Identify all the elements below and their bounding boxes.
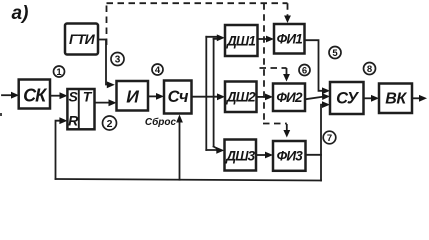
svg-text:7: 7: [327, 133, 332, 144]
svg-text:И: И: [126, 87, 139, 107]
wire FI3 output to riser: [306, 154, 322, 156]
wire input arrow to CK: [2, 92, 19, 99]
node 8 circle: [364, 63, 376, 75]
svg-text:ДШ3: ДШ3: [225, 149, 255, 164]
block VK: [379, 84, 412, 114]
wire dashed branch to FI3: [263, 124, 287, 131]
wire bottom feedback line: [56, 179, 322, 181]
svg-text:ФИ1: ФИ1: [277, 32, 303, 47]
svg-text:ДШ2: ДШ2: [226, 90, 256, 105]
svg-text:2: 2: [107, 118, 113, 130]
svg-text:ФИ3: ФИ3: [277, 149, 304, 164]
svg-text:СУ: СУ: [336, 90, 360, 108]
wire bus vertical right: [213, 39, 215, 147]
trigger T block: [67, 89, 94, 129]
wire CK to S of trigger: [50, 92, 68, 99]
wire dashed drop to FI1: [287, 3, 289, 16]
svg-text:4: 4: [155, 65, 161, 76]
block I (AND): [117, 81, 149, 111]
svg-text:6: 6: [302, 66, 307, 77]
wire AND to counter: [148, 93, 164, 100]
wire SU to VK: [364, 95, 380, 102]
node 7 circle: [323, 131, 336, 144]
svg-text:Сброс: Сброс: [145, 116, 177, 128]
wire DSh2 to FI2: [257, 94, 274, 101]
arrowhead into FI3 top: [283, 130, 290, 138]
block SU: [330, 82, 364, 114]
wire dashed vertical tee to lower branches: [263, 3, 265, 123]
wire dashed horizontal top: [107, 2, 288, 4]
block DSh1: [225, 25, 258, 56]
block Sch (counter): [164, 81, 192, 114]
arrowhead into FI2 top: [283, 74, 290, 82]
wire FI1 output to SU input 1: [305, 40, 331, 94]
block DSh2: [225, 82, 257, 113]
svg-text:5: 5: [332, 48, 338, 59]
block CK: [19, 80, 50, 109]
wire FI2 output to SU input 2: [305, 93, 330, 100]
trigger divider: [78, 89, 80, 129]
svg-text:1: 1: [56, 67, 62, 78]
svg-text:ДШ1: ДШ1: [226, 34, 255, 49]
wire dashed branch to FI2: [260, 68, 287, 74]
svg-text:ВК: ВК: [385, 91, 407, 108]
block FI3: [273, 141, 306, 171]
node 5 circle: [329, 47, 341, 59]
svg-text:a): a): [12, 3, 29, 24]
block GTI: [65, 24, 98, 55]
wire DSh3 to FI3: [256, 152, 273, 159]
wire bus to DSh3: [206, 147, 224, 154]
arrowhead into FI1 top: [284, 16, 291, 24]
wire bus vertical left: [205, 37, 207, 150]
wire right riser to SU input 3: [321, 101, 330, 180]
block FI2: [273, 84, 305, 112]
block FI1: [274, 24, 305, 54]
node circles: [54, 47, 376, 144]
wire DSh1 to FI1: [258, 36, 275, 43]
svg-text:S: S: [69, 89, 79, 105]
wire VK output arrow: [412, 95, 427, 102]
svg-text:8: 8: [367, 64, 372, 75]
edge speck: [0, 113, 2, 116]
wire GTI output tick: [98, 39, 106, 41]
wire bus to DSh1: [206, 34, 225, 41]
svg-text:Сч: Сч: [168, 88, 189, 106]
node 1 circle: [54, 66, 65, 77]
svg-text:R: R: [68, 113, 79, 129]
block DSh3: [225, 140, 257, 171]
node 4 circle: [152, 64, 163, 75]
svg-text:3: 3: [115, 55, 121, 66]
wire reset riser to counter bottom: [176, 115, 183, 180]
svg-text:СК: СК: [23, 86, 48, 106]
svg-text:ГТИ: ГТИ: [69, 31, 96, 47]
dashed clock distribution net: [107, 3, 288, 130]
node 6 circle: [299, 65, 310, 76]
wire dashed vertical above GTI junction: [106, 3, 108, 45]
svg-text:T: T: [83, 89, 93, 105]
wire trigger T output to AND gate: [95, 99, 117, 106]
svg-text:ФИ2: ФИ2: [276, 90, 303, 105]
node 3 circle: [111, 53, 124, 66]
wire GTI vertical down to AND: [106, 40, 115, 88]
node 2 circle: [103, 116, 117, 130]
blocks: [19, 24, 412, 171]
wire counter output to DSh2: [192, 93, 226, 100]
wire left riser to R input: [56, 117, 68, 179]
